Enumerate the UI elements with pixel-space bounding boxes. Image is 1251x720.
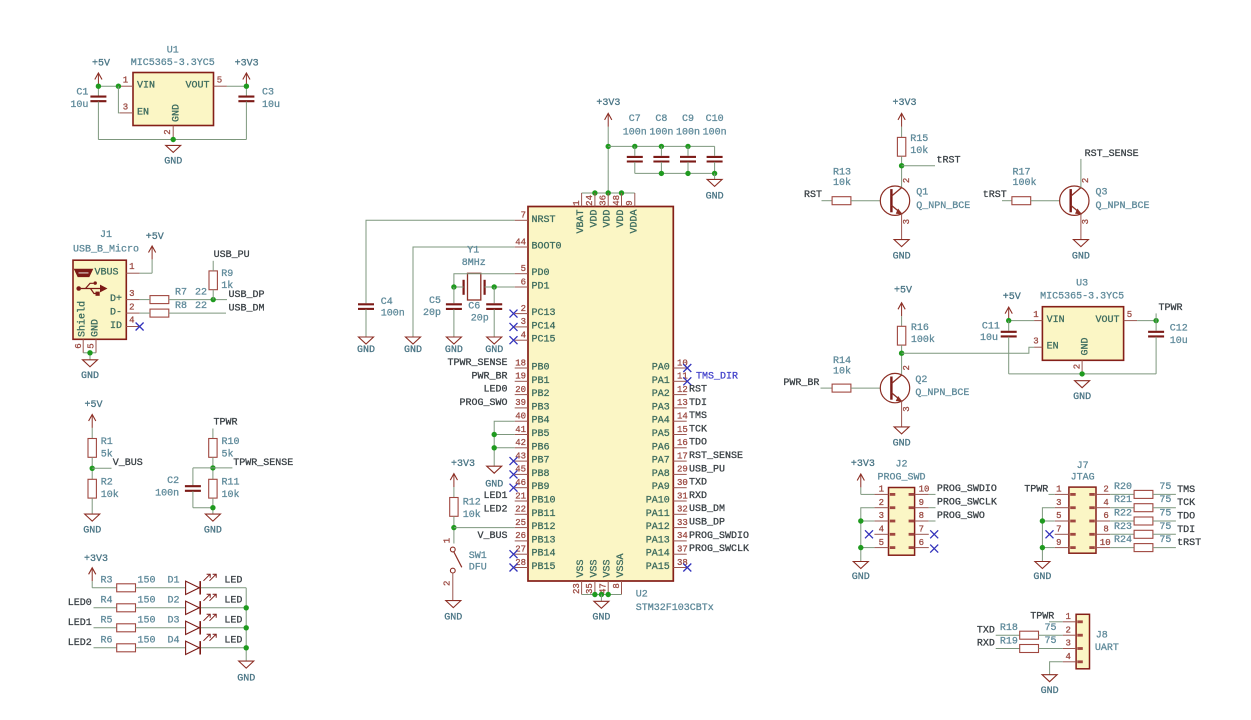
- svg-text:C9: C9: [682, 114, 694, 125]
- svg-text:TPWR: TPWR: [1030, 611, 1054, 622]
- svg-text:UART: UART: [1095, 643, 1119, 654]
- resistor R19: [1020, 645, 1039, 653]
- svg-text:PROG_SWDIO: PROG_SWDIO: [937, 484, 997, 495]
- svg-text:5: 5: [879, 538, 884, 548]
- no-connect U2 left pin: [510, 310, 518, 318]
- svg-text:10u: 10u: [262, 100, 280, 111]
- svg-text:LED2: LED2: [68, 638, 92, 649]
- svg-text:45: 45: [515, 465, 526, 475]
- svg-text:+3V3: +3V3: [235, 58, 259, 69]
- svg-text:1: 1: [1033, 310, 1038, 320]
- svg-text:PA6: PA6: [652, 442, 670, 453]
- ground (C5): [446, 337, 461, 344]
- wire TPWR_SENSE node: [212, 457, 214, 479]
- svg-text:22: 22: [515, 505, 526, 515]
- ground (J1): [83, 360, 98, 367]
- pin 2 PC13 of U2: [515, 313, 528, 315]
- pin 21 PB10 of U2: [515, 500, 528, 502]
- capacitor C3: [245, 86, 247, 96]
- svg-text:VSS: VSS: [589, 559, 600, 577]
- svg-text:2: 2: [443, 581, 453, 586]
- svg-text:R12: R12: [463, 497, 481, 508]
- resistor R5: [117, 624, 136, 632]
- svg-text:10: 10: [919, 485, 930, 495]
- svg-text:9: 9: [919, 498, 924, 508]
- svg-text:RST: RST: [804, 190, 822, 201]
- wire R17 to Q3 base: [1031, 200, 1071, 202]
- svg-text:42: 42: [515, 438, 526, 448]
- power +5V (R1 divider): [91, 416, 93, 428]
- USB receptacle icon: [75, 269, 93, 276]
- pin 8 of J7: [1096, 533, 1110, 535]
- pin 10 PA0 of U2: [673, 367, 686, 369]
- wire PWR_BR to R14: [821, 387, 833, 389]
- svg-text:GND: GND: [1073, 392, 1091, 403]
- wire Q3 collector to RST_SENSE: [1080, 159, 1082, 188]
- svg-text:22: 22: [195, 288, 207, 299]
- svg-text:GND: GND: [485, 480, 503, 491]
- svg-text:RXD: RXD: [977, 639, 995, 650]
- pin 39 PB3 of U2: [515, 407, 528, 409]
- pin 12 PA2 of U2: [673, 394, 686, 396]
- resistor R10: [209, 439, 217, 458]
- no-connect U2 right pin: [683, 564, 691, 572]
- pin 27 PB14 of U2: [515, 553, 528, 555]
- wire R5 to D3: [136, 627, 186, 629]
- pin 14 PA4 of U2: [673, 420, 686, 422]
- svg-text:VSSA: VSSA: [616, 553, 627, 577]
- svg-text:75: 75: [1159, 522, 1171, 533]
- pin 4 of J7: [1096, 507, 1110, 509]
- svg-text:100k: 100k: [1013, 177, 1037, 189]
- pin 24 VDD of U2: [594, 193, 596, 207]
- wire J2 ground pins: [861, 508, 875, 562]
- svg-text:26: 26: [515, 531, 526, 541]
- svg-text:TXD: TXD: [977, 625, 995, 636]
- capacitor C11: [1008, 321, 1010, 331]
- pin 1 VBAT of U2: [581, 193, 583, 207]
- wire J2 pin1 to +3V3: [861, 493, 875, 495]
- svg-text:PA5: PA5: [652, 429, 670, 440]
- wire D4 cathode: [201, 647, 246, 649]
- wire J7 ground pins: [1042, 508, 1054, 562]
- svg-text:TPWR_SENSE: TPWR_SENSE: [233, 458, 293, 469]
- no-connect U2 left pin: [510, 323, 518, 331]
- pin 41 PB5 of U2: [515, 434, 528, 436]
- svg-text:ID: ID: [110, 321, 122, 332]
- LED D1: [186, 581, 200, 594]
- svg-text:100n: 100n: [381, 309, 405, 320]
- svg-text:100n: 100n: [676, 127, 700, 138]
- svg-text:MIC5365-3.3YC5: MIC5365-3.3YC5: [1040, 292, 1124, 303]
- resistor R6: [117, 644, 136, 652]
- svg-text:GND: GND: [1033, 572, 1051, 583]
- ground (decoupling): [707, 179, 722, 186]
- pin 7 of J7: [1055, 533, 1069, 535]
- svg-text:150: 150: [138, 636, 156, 647]
- svg-text:J8: J8: [1096, 631, 1108, 642]
- capacitor C7: [634, 146, 636, 155]
- svg-text:2: 2: [902, 365, 912, 370]
- power +5V (U1 input): [97, 74, 99, 86]
- wire D2 cathode: [201, 607, 246, 609]
- svg-text:GND: GND: [91, 319, 102, 337]
- svg-text:VDD: VDD: [589, 209, 600, 227]
- pin 2 of J8: [1063, 634, 1076, 636]
- pin 6 of J7: [1096, 520, 1110, 522]
- svg-text:R5: R5: [100, 616, 112, 627]
- wire VOUT to +3V3: [227, 85, 247, 87]
- resistor R12: [450, 498, 458, 517]
- svg-text:100k: 100k: [911, 334, 935, 346]
- svg-text:PB0: PB0: [532, 363, 550, 374]
- no-connect J2 pin 7: [930, 530, 938, 538]
- svg-text:44: 44: [515, 237, 526, 247]
- power +5V (R16): [901, 304, 903, 316]
- svg-text:32: 32: [677, 505, 688, 515]
- no-connect U2 left pin: [510, 550, 518, 558]
- svg-text:13: 13: [677, 398, 688, 408]
- svg-text:PA1: PA1: [652, 376, 670, 387]
- svg-text:USB_DM: USB_DM: [689, 504, 725, 515]
- wire LED0 to R4: [94, 607, 117, 609]
- svg-text:5: 5: [87, 343, 97, 348]
- svg-text:RST: RST: [689, 385, 707, 396]
- svg-text:tRST: tRST: [937, 156, 961, 167]
- svg-text:C5: C5: [429, 296, 441, 307]
- svg-text:PA2: PA2: [652, 389, 670, 400]
- svg-text:39: 39: [515, 398, 526, 408]
- svg-text:C8: C8: [655, 114, 667, 125]
- wire NRST net: [366, 220, 515, 303]
- ground (Q2): [894, 427, 909, 434]
- svg-text:PC15: PC15: [532, 335, 556, 346]
- svg-text:R4: R4: [100, 596, 112, 607]
- svg-text:D+: D+: [110, 294, 122, 305]
- ground (C6): [487, 337, 502, 344]
- pin 32 PA11 of U2: [673, 513, 686, 515]
- svg-text:Q3: Q3: [1096, 187, 1108, 198]
- svg-text:J1: J1: [100, 230, 112, 241]
- svg-text:GND: GND: [444, 612, 462, 623]
- capacitor C1: [97, 86, 99, 96]
- svg-text:GND: GND: [893, 251, 911, 262]
- svg-text:16: 16: [677, 438, 688, 448]
- power +3V3 (VDD rail): [607, 114, 609, 126]
- svg-text:100n: 100n: [703, 127, 727, 138]
- resistor R20: [1110, 493, 1134, 495]
- svg-text:LED0: LED0: [483, 385, 507, 396]
- svg-text:R16: R16: [911, 323, 929, 334]
- svg-text:JTAG: JTAG: [1071, 472, 1095, 483]
- pin 30 PA9 of U2: [673, 487, 686, 489]
- svg-text:100n: 100n: [623, 127, 647, 138]
- wire D3 cathode: [201, 627, 246, 629]
- svg-text:2: 2: [163, 129, 173, 134]
- wire ground rail U1: [98, 139, 246, 141]
- svg-text:18: 18: [515, 358, 526, 368]
- svg-text:3: 3: [521, 317, 526, 327]
- svg-text:D-: D-: [110, 308, 122, 319]
- svg-text:GND: GND: [1041, 686, 1059, 697]
- wire +5V to VIN: [1009, 320, 1034, 322]
- resistor R9: [209, 271, 217, 290]
- svg-text:10k: 10k: [833, 177, 851, 189]
- svg-text:GND: GND: [237, 673, 255, 684]
- capacitor C8: [660, 146, 662, 155]
- pin 45 PB8 of U2: [515, 473, 528, 475]
- svg-text:+3V3: +3V3: [892, 98, 916, 109]
- svg-text:PB2: PB2: [532, 389, 550, 400]
- svg-text:R7: R7: [175, 288, 187, 299]
- resistor R4: [117, 604, 136, 612]
- svg-text:5: 5: [1056, 511, 1061, 521]
- svg-text:PROG_SWO: PROG_SWO: [937, 511, 985, 522]
- svg-text:U2: U2: [636, 589, 648, 600]
- svg-text:2: 2: [129, 302, 134, 312]
- power +5V (U3 input): [1008, 308, 1010, 320]
- pin 8 of J2: [915, 520, 929, 522]
- pin 1 of J8: [1063, 621, 1076, 623]
- pin 2 of J7: [1096, 493, 1110, 495]
- pin 47 VSS of U2: [607, 581, 609, 595]
- wire BOOT0 to ground: [413, 247, 515, 337]
- svg-text:PA14: PA14: [646, 549, 670, 560]
- ground (Q3): [1073, 240, 1088, 247]
- svg-text:6: 6: [521, 277, 526, 287]
- svg-text:DFU: DFU: [469, 563, 487, 574]
- svg-text:BOOT0: BOOT0: [532, 242, 562, 253]
- svg-text:GND: GND: [485, 345, 503, 356]
- svg-text:GND: GND: [1072, 251, 1090, 262]
- svg-text:TMS: TMS: [689, 411, 707, 422]
- svg-text:10k: 10k: [101, 489, 119, 501]
- svg-text:VOUT: VOUT: [185, 81, 209, 92]
- pin 15 PA5 of U2: [673, 434, 686, 436]
- svg-text:Q_NPN_BCE: Q_NPN_BCE: [916, 201, 970, 212]
- svg-text:4: 4: [521, 331, 526, 341]
- svg-text:TDI: TDI: [689, 398, 707, 409]
- svg-text:PB10: PB10: [532, 496, 556, 507]
- wire R6 to D4: [136, 647, 186, 649]
- svg-text:PB6: PB6: [532, 442, 550, 453]
- LED D2: [186, 601, 200, 614]
- svg-text:10u: 10u: [1170, 336, 1188, 347]
- svg-text:D2: D2: [168, 596, 180, 607]
- wire V_BUS node: [91, 457, 93, 479]
- svg-text:R10: R10: [222, 437, 240, 448]
- svg-text:R22: R22: [1114, 509, 1132, 520]
- svg-text:10k: 10k: [910, 145, 928, 157]
- transistor Q1 Q_NPN_BCE: [880, 186, 909, 215]
- svg-text:75: 75: [1159, 495, 1171, 506]
- svg-text:PB4: PB4: [532, 416, 550, 427]
- wire R3 to D1: [136, 587, 186, 589]
- svg-text:Q2: Q2: [915, 375, 927, 386]
- no-connect U2 left pin: [510, 564, 518, 572]
- svg-text:R15: R15: [910, 134, 928, 145]
- pin 42 PB6 of U2: [515, 447, 528, 449]
- ground (C4): [359, 337, 374, 344]
- svg-text:PROG_SWDIO: PROG_SWDIO: [689, 531, 749, 542]
- svg-text:PB15: PB15: [532, 562, 556, 573]
- svg-text:10k: 10k: [833, 366, 851, 378]
- pin 36 VDD of U2: [607, 193, 609, 207]
- svg-text:3: 3: [879, 511, 884, 521]
- wire TPWR to R10: [212, 429, 214, 439]
- svg-text:24: 24: [585, 195, 595, 206]
- svg-text:10: 10: [1100, 538, 1111, 548]
- svg-text:41: 41: [515, 425, 526, 435]
- svg-text:USB_B_Micro: USB_B_Micro: [73, 244, 139, 256]
- svg-text:VSS: VSS: [603, 559, 614, 577]
- svg-text:17: 17: [677, 451, 688, 461]
- ground (LEDs): [239, 661, 254, 668]
- svg-text:3: 3: [1056, 498, 1061, 508]
- pin 6 of J2: [915, 547, 929, 549]
- resistor R11: [209, 479, 217, 498]
- no-connect U2 left pin: [510, 470, 518, 478]
- svg-text:TMS_DIR: TMS_DIR: [696, 371, 738, 382]
- pin 13 PA3 of U2: [673, 407, 686, 409]
- wire U3 ground rail: [1009, 373, 1156, 375]
- wire D+ to R7: [140, 299, 150, 301]
- svg-text:100n: 100n: [649, 127, 673, 138]
- wire decoupling top bus: [608, 145, 714, 147]
- svg-text:TCK: TCK: [1177, 498, 1195, 509]
- pin 17 PA7 of U2: [673, 460, 686, 462]
- wire Q2 collector to U3 EN: [902, 347, 1035, 353]
- svg-text:PWR_BR: PWR_BR: [471, 371, 507, 382]
- svg-text:PA9: PA9: [652, 482, 670, 493]
- svg-text:STM32F103CBTx: STM32F103CBTx: [636, 603, 714, 614]
- pin 5 of J2: [874, 547, 888, 549]
- svg-text:3: 3: [123, 102, 128, 112]
- pin 3 of J2: [874, 520, 888, 522]
- power +3V3 (J2 pin1): [860, 475, 862, 487]
- svg-text:21: 21: [515, 491, 526, 501]
- svg-text:75: 75: [1159, 535, 1171, 546]
- svg-text:PA13: PA13: [646, 535, 670, 546]
- svg-text:RST_SENSE: RST_SENSE: [689, 451, 743, 462]
- svg-text:LED1: LED1: [68, 618, 92, 629]
- svg-text:1k: 1k: [221, 280, 233, 292]
- svg-text:48: 48: [612, 195, 622, 206]
- svg-text:J2: J2: [895, 459, 907, 470]
- svg-text:8: 8: [919, 511, 924, 521]
- pin 40 PB4 of U2: [515, 420, 528, 422]
- svg-text:31: 31: [677, 491, 688, 501]
- svg-text:C4: C4: [381, 297, 393, 308]
- pin 8 VSSA of U2: [621, 581, 623, 595]
- USB trident icon: [76, 286, 81, 291]
- svg-text:+5V: +5V: [1003, 292, 1021, 303]
- svg-text:LED: LED: [224, 636, 242, 647]
- svg-text:33: 33: [677, 518, 688, 528]
- svg-text:6: 6: [1103, 511, 1108, 521]
- svg-text:Q_NPN_BCE: Q_NPN_BCE: [915, 388, 969, 399]
- pin 19 PB1 of U2: [515, 380, 528, 382]
- svg-text:PB14: PB14: [532, 549, 556, 560]
- svg-text:TDO: TDO: [689, 438, 707, 449]
- svg-text:19: 19: [515, 372, 526, 382]
- power +3V3 (LED rail): [91, 569, 93, 581]
- LED D3: [186, 621, 200, 634]
- svg-text:20p: 20p: [423, 308, 441, 319]
- wire J8 pin4 to ground: [1050, 662, 1063, 675]
- no-connect J2 pin 6: [930, 545, 938, 553]
- wire USB_DP net: [169, 299, 227, 301]
- svg-text:TDO: TDO: [1177, 512, 1195, 523]
- svg-text:+5V: +5V: [84, 400, 102, 411]
- svg-text:+5V: +5V: [894, 286, 912, 297]
- svg-text:25: 25: [515, 518, 526, 528]
- svg-text:PD1: PD1: [532, 282, 550, 293]
- svg-text:TPWR: TPWR: [1159, 303, 1183, 314]
- wire R11/C2 to ground: [193, 507, 213, 509]
- svg-text:PA15: PA15: [646, 562, 670, 573]
- pin 10 of J7: [1096, 547, 1110, 549]
- pin 3 of U3: [1034, 346, 1042, 348]
- svg-text:5: 5: [521, 264, 526, 274]
- resistor R3: [117, 584, 136, 592]
- svg-text:U3: U3: [1076, 279, 1088, 290]
- svg-text:VSS: VSS: [576, 559, 587, 577]
- svg-text:+3V3: +3V3: [596, 98, 620, 109]
- svg-text:43: 43: [515, 451, 526, 461]
- wire decoupling bottom bus: [635, 172, 715, 174]
- svg-text:TPWR_SENSE: TPWR_SENSE: [447, 358, 507, 369]
- svg-text:5: 5: [1127, 310, 1132, 320]
- svg-text:3: 3: [1033, 337, 1038, 347]
- svg-text:PROG_SWO: PROG_SWO: [459, 398, 507, 409]
- svg-text:TMS: TMS: [1177, 485, 1195, 496]
- svg-text:3: 3: [902, 219, 912, 224]
- svg-text:C11: C11: [982, 322, 1000, 333]
- wire R20 to TMS: [1153, 493, 1176, 495]
- pin 16 PA6 of U2: [673, 447, 686, 449]
- svg-text:J7: J7: [1077, 461, 1089, 472]
- wire J2 pin8 PROG_SWO: [929, 520, 936, 522]
- svg-text:USB_PU: USB_PU: [689, 464, 725, 475]
- pin 3 PC14 of U2: [515, 326, 528, 328]
- svg-text:8: 8: [612, 583, 622, 588]
- pin 7 NRST of U2: [515, 219, 528, 221]
- svg-text:PA7: PA7: [652, 456, 670, 467]
- svg-text:14: 14: [677, 412, 688, 422]
- svg-text:36: 36: [599, 195, 609, 206]
- svg-text:GND: GND: [592, 612, 610, 623]
- svg-text:GND: GND: [1081, 337, 1092, 355]
- wire +3V3 to R3: [92, 587, 117, 589]
- svg-text:+3V3: +3V3: [851, 459, 875, 470]
- pin 7 of J2: [915, 533, 929, 535]
- svg-text:4: 4: [879, 525, 884, 535]
- svg-text:6: 6: [74, 343, 84, 348]
- svg-text:TXD: TXD: [689, 478, 707, 489]
- wire +5V input node: [98, 85, 119, 87]
- svg-text:R24: R24: [1114, 535, 1132, 546]
- resistor R17: [1012, 197, 1031, 205]
- wire C2 branch: [193, 467, 213, 469]
- svg-text:VIN: VIN: [137, 81, 155, 92]
- pin 37 PA14 of U2: [673, 553, 686, 555]
- wire PB4/PB5/PB6 to ground: [494, 421, 515, 466]
- svg-text:GND: GND: [204, 525, 222, 536]
- pin 1 of J2: [874, 493, 888, 495]
- svg-text:GND: GND: [852, 572, 870, 583]
- svg-text:USB_DP: USB_DP: [229, 290, 265, 301]
